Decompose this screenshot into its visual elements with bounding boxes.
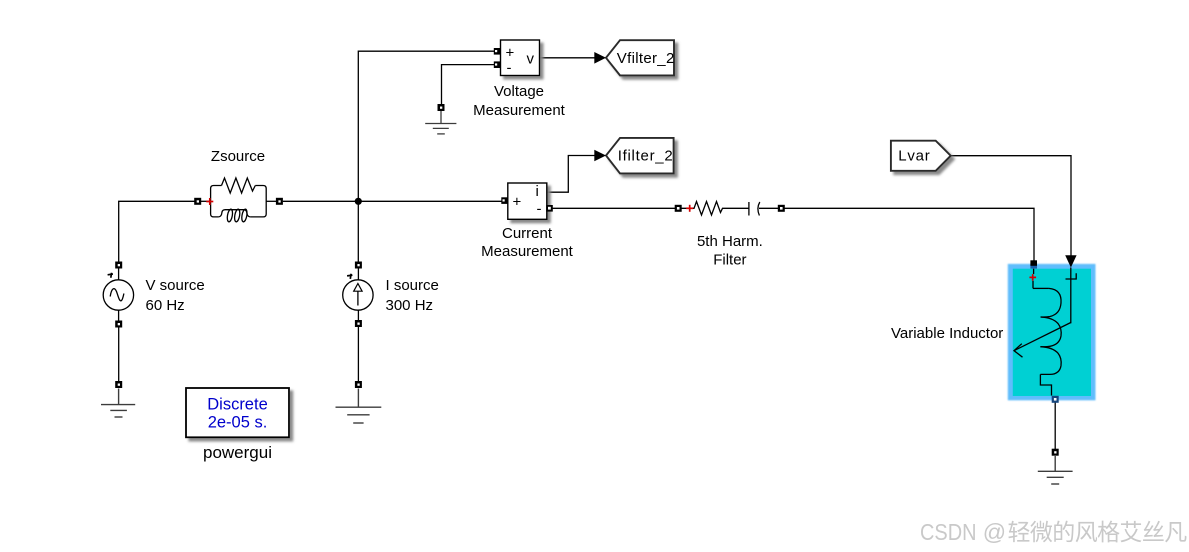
svg-text:凡: 凡 bbox=[1164, 519, 1187, 545]
svg-text:Filter: Filter bbox=[713, 251, 746, 268]
from tag Lvar bbox=[891, 141, 951, 171]
arrowhead into Variable Inductor bbox=[1065, 255, 1076, 267]
svg-text:V source: V source bbox=[146, 277, 205, 294]
wire bbox=[1054, 403, 1056, 450]
port bbox=[778, 205, 785, 212]
port bbox=[675, 205, 682, 212]
arrowhead into Ifilter_2 bbox=[594, 150, 606, 162]
svg-text:Lvar: Lvar bbox=[898, 148, 930, 165]
svg-text:I source: I source bbox=[386, 277, 439, 294]
goto tag Vfilter_2 bbox=[606, 40, 674, 75]
wire bbox=[118, 268, 120, 280]
svg-text:-: - bbox=[507, 60, 512, 77]
goto tag Ifilter_2 bbox=[606, 138, 674, 174]
svg-text:微: 微 bbox=[1030, 519, 1053, 545]
ground under Voltage Measurement minus input bbox=[425, 104, 456, 134]
svg-text:5th Harm.: 5th Harm. bbox=[697, 233, 763, 250]
svg-text:2e-05 s.: 2e-05 s. bbox=[208, 413, 268, 431]
port bbox=[115, 262, 122, 269]
block Variable Inductor bbox=[1008, 264, 1096, 400]
svg-text:丝: 丝 bbox=[1142, 519, 1165, 545]
ground under I source bbox=[336, 381, 382, 423]
svg-text:powergui: powergui bbox=[203, 443, 272, 462]
svg-text:-: - bbox=[537, 201, 542, 218]
port bbox=[494, 61, 501, 68]
wire bbox=[357, 201, 359, 262]
port bbox=[501, 197, 508, 204]
impedance Zsource block (parallel RL) bbox=[201, 178, 276, 222]
port bbox=[1030, 260, 1037, 268]
port bbox=[1052, 396, 1059, 403]
ground under Variable Inductor bbox=[1038, 449, 1073, 484]
series RC branch 5th Harm. Filter bbox=[681, 202, 778, 216]
svg-text:+: + bbox=[513, 194, 522, 211]
wire bbox=[551, 207, 676, 209]
control line bbox=[1070, 268, 1072, 324]
svg-text:Measurement: Measurement bbox=[473, 102, 566, 119]
voltage source V source block bbox=[103, 273, 133, 310]
red plus bbox=[1029, 274, 1036, 281]
wire bbox=[358, 51, 495, 201]
wire bbox=[357, 327, 359, 381]
coil bbox=[1041, 288, 1061, 317]
svg-text:Current: Current bbox=[502, 225, 553, 242]
svg-text:艾: 艾 bbox=[1120, 519, 1143, 545]
port bbox=[115, 321, 122, 328]
svg-text:300 Hz: 300 Hz bbox=[386, 297, 434, 314]
svg-text:Discrete: Discrete bbox=[207, 395, 268, 413]
svg-text:轻: 轻 bbox=[1008, 519, 1031, 545]
svg-text:的: 的 bbox=[1052, 519, 1075, 545]
wire bbox=[283, 200, 504, 202]
red plus polarity mark bbox=[206, 198, 213, 205]
svg-text:i: i bbox=[536, 183, 539, 200]
svg-text:格: 格 bbox=[1097, 519, 1120, 545]
selection highlight bbox=[1008, 264, 1096, 400]
port bbox=[276, 198, 283, 205]
svg-text:Zsource: Zsource bbox=[211, 148, 265, 165]
port bbox=[494, 48, 501, 55]
svg-text:风: 风 bbox=[1075, 519, 1098, 545]
wire bbox=[547, 156, 595, 193]
svg-text:Measurement: Measurement bbox=[481, 243, 574, 260]
wire bbox=[118, 310, 120, 321]
block Current Measurement bbox=[508, 183, 547, 219]
left branch wire bbox=[1033, 269, 1035, 274]
port bbox=[355, 262, 362, 269]
svg-text:CSDN: CSDN bbox=[920, 519, 977, 545]
wire bbox=[442, 65, 496, 105]
wire bbox=[951, 156, 1071, 256]
svg-text:@: @ bbox=[983, 519, 1006, 545]
svg-text:v: v bbox=[527, 51, 535, 68]
svg-text:60 Hz: 60 Hz bbox=[146, 297, 185, 314]
arrowhead into Vfilter_2 bbox=[594, 52, 606, 64]
node junction bbox=[355, 198, 362, 205]
svg-text:Voltage: Voltage bbox=[494, 83, 544, 100]
port bbox=[546, 205, 553, 212]
port bbox=[194, 198, 201, 205]
port bbox=[355, 320, 362, 327]
svg-text:Variable Inductor: Variable Inductor bbox=[891, 325, 1003, 342]
diagonal arrow bbox=[1014, 323, 1071, 351]
svg-text:Vfilter_2: Vfilter_2 bbox=[617, 50, 675, 67]
block powergui bbox=[186, 388, 289, 437]
wire bbox=[540, 57, 596, 59]
wire bbox=[357, 310, 359, 321]
current source I source block bbox=[343, 274, 373, 310]
red plus polarity mark bbox=[686, 205, 693, 212]
block Voltage Measurement bbox=[501, 40, 540, 77]
wire bbox=[785, 208, 1035, 261]
ground under V source bbox=[101, 381, 135, 417]
svg-text:Ifilter_2: Ifilter_2 bbox=[618, 148, 673, 165]
watermark bbox=[920, 519, 1187, 545]
wire bbox=[357, 268, 359, 280]
wire bbox=[119, 201, 195, 262]
wire bbox=[118, 328, 120, 382]
